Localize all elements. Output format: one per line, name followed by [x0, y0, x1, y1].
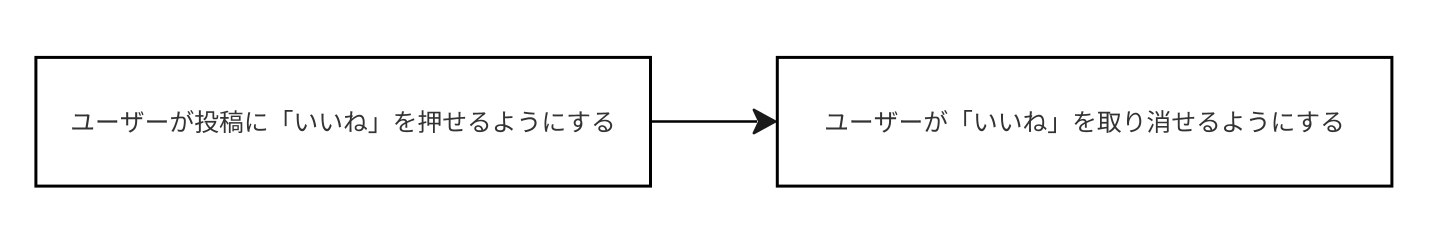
- node box: left task: [36, 57, 651, 186]
- arrowhead: [754, 110, 775, 133]
- node box: right task: [777, 57, 1392, 186]
- label: left task text (ユーザーが投稿に「いいね」を押せるようにする): [72, 110, 612, 133]
- wire: arrow shaft: [652, 120, 757, 123]
- label: right task text (ユーザーが「いいね」を取り消せるようにする): [826, 110, 1341, 133]
